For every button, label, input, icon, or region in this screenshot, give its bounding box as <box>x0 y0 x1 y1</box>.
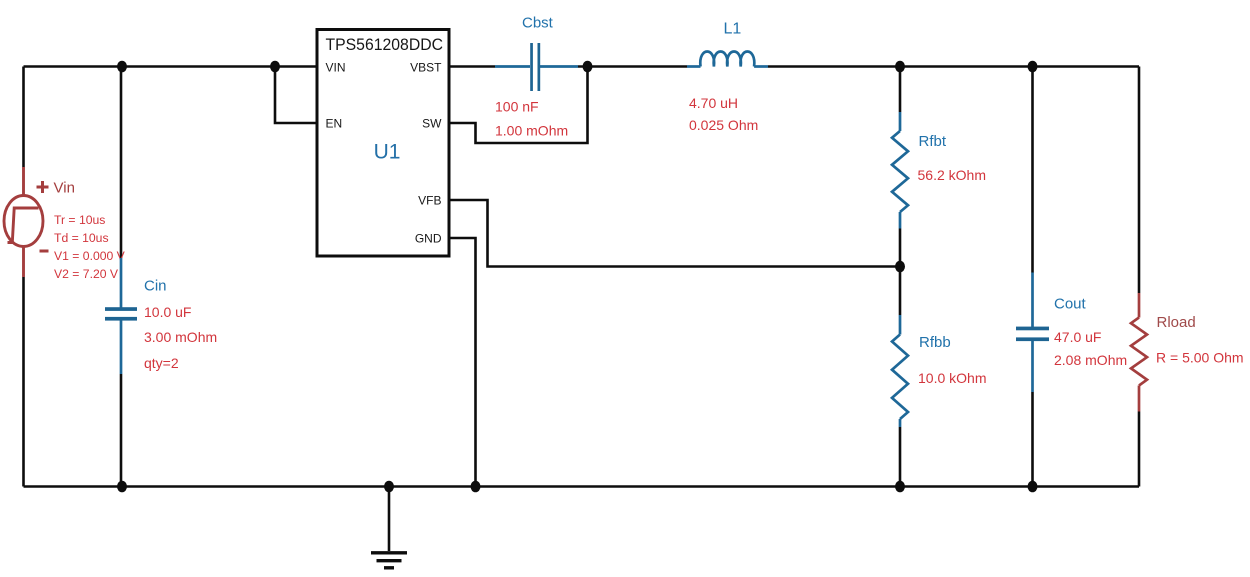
svg-text:Td = 10us: Td = 10us <box>54 231 109 245</box>
svg-text:TPS561208DDC: TPS561208DDC <box>326 35 444 54</box>
svg-text:1.00 mOhm: 1.00 mOhm <box>495 123 568 139</box>
svg-text:10.0 uF: 10.0 uF <box>144 304 191 320</box>
value Cin parameters <box>144 304 217 371</box>
svg-text:2.08 mOhm: 2.08 mOhm <box>1054 352 1127 368</box>
svg-text:VFB: VFB <box>418 194 441 208</box>
wire Rfbb lower <box>899 427 902 487</box>
junction node Cout bottom <box>1028 481 1038 493</box>
capacitor Cin <box>120 258 123 374</box>
wire Rfbt upper <box>899 67 902 113</box>
svg-text:Vin: Vin <box>54 180 75 197</box>
svg-text:Tr = 10us: Tr = 10us <box>54 213 105 227</box>
Vin minus terminal mark <box>40 250 49 253</box>
inductor L1 <box>687 52 768 67</box>
svg-text:V2 = 7.20 V: V2 = 7.20 V <box>54 267 119 281</box>
wire left rail lower (Vin source down to bottom rail) <box>22 277 25 487</box>
svg-text:0.025 Ohm: 0.025 Ohm <box>689 117 758 133</box>
resistor Rload <box>1131 293 1147 412</box>
junction node Cbst/SW <box>583 61 593 73</box>
svg-text:4.70 uH: 4.70 uH <box>689 95 738 111</box>
wire GND pin to bottom rail <box>449 238 476 487</box>
svg-text:Rfbt: Rfbt <box>919 133 947 150</box>
wire Rload lower <box>1138 412 1141 487</box>
wire Cin upper <box>120 67 123 259</box>
capacitor Cout <box>1031 273 1034 393</box>
wire left rail upper (top corner down to Vin source) <box>22 67 25 168</box>
svg-text:GND: GND <box>415 232 442 246</box>
svg-text:Cout: Cout <box>1054 296 1087 313</box>
resistor Rfbb <box>892 315 908 427</box>
junction node EN tap <box>270 61 280 73</box>
junction node Cin top <box>117 61 127 73</box>
junction node Rfbt top <box>895 61 905 73</box>
Vin plus terminal mark <box>37 181 49 193</box>
value Cout parameters <box>1054 329 1127 368</box>
svg-text:VBST: VBST <box>410 61 442 75</box>
wire Rfbt lower <box>899 229 902 267</box>
wire Rload upper <box>1138 67 1141 294</box>
svg-text:SW: SW <box>422 117 442 131</box>
svg-text:56.2 kOhm: 56.2 kOhm <box>918 167 986 183</box>
junction node GND wire bottom <box>471 481 481 493</box>
wire Cout upper <box>1031 67 1034 273</box>
wire Cin lower <box>120 374 123 487</box>
svg-text:qty=2: qty=2 <box>144 355 179 371</box>
wire top rail left (Vin top to VIN pin) <box>24 65 318 68</box>
svg-text:VIN: VIN <box>326 61 346 75</box>
value Cbst parameters <box>495 99 568 139</box>
op-amp U1 (IC TPS561208DDC box) <box>317 30 449 257</box>
junction node ground tap <box>384 481 394 493</box>
svg-text:R = 5.00 Ohm: R = 5.00 Ohm <box>1156 350 1244 366</box>
svg-text:10.0 kOhm: 10.0 kOhm <box>918 370 986 386</box>
svg-text:EN: EN <box>326 117 343 131</box>
wire bottom rail <box>24 485 1140 488</box>
svg-text:U1: U1 <box>374 141 401 164</box>
svg-text:Rfbb: Rfbb <box>919 334 951 351</box>
wire Rfbb upper <box>899 267 902 316</box>
wire Cbst node to L1 <box>578 65 687 68</box>
junction node Cout top <box>1028 61 1038 73</box>
svg-text:Rload: Rload <box>1157 314 1196 331</box>
wire L1 to Rload top corner <box>768 65 1139 68</box>
svg-text:Cbst: Cbst <box>522 15 554 32</box>
wire SW loop to Cbst output node <box>449 67 588 144</box>
wire VFB net <box>449 200 900 267</box>
svg-text:100 nF: 100 nF <box>495 99 539 115</box>
wire VBST stub <box>449 65 495 68</box>
value Vin parameters <box>54 213 126 281</box>
capacitor Cbst <box>495 65 578 68</box>
svg-text:47.0 uF: 47.0 uF <box>1054 329 1101 345</box>
svg-text:Cin: Cin <box>144 278 167 295</box>
svg-text:V1 = 0.000 V: V1 = 0.000 V <box>54 249 126 263</box>
voltage source Vin <box>4 167 43 277</box>
wire ground stem <box>388 487 391 552</box>
svg-text:3.00 mOhm: 3.00 mOhm <box>144 329 217 345</box>
svg-text:L1: L1 <box>724 21 742 38</box>
junction node Cin bottom <box>117 481 127 493</box>
wire Cout lower <box>1031 392 1034 487</box>
junction node Rfbb bottom <box>895 481 905 493</box>
wire EN elbow from top rail <box>275 67 317 124</box>
junction node VFB divider <box>895 261 905 273</box>
resistor Rfbt <box>892 112 908 229</box>
ground <box>371 553 407 568</box>
value L1 parameters <box>689 95 758 133</box>
